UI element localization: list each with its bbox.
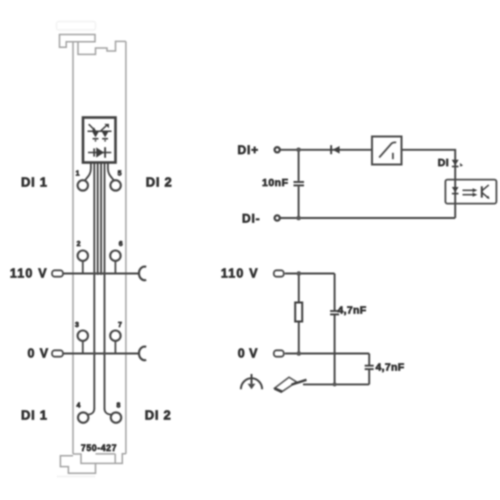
- svg-text:4,7nF: 4,7nF: [376, 362, 405, 374]
- svg-text:8: 8: [117, 403, 121, 410]
- svg-text:110 V: 110 V: [10, 267, 48, 281]
- svg-text:DI 1: DI 1: [21, 408, 48, 423]
- svg-text:DI 2: DI 2: [146, 175, 173, 190]
- svg-text:3: 3: [75, 322, 79, 329]
- svg-text:4,7nF: 4,7nF: [338, 305, 367, 317]
- svg-text:DI: DI: [438, 157, 449, 169]
- svg-text:10nF: 10nF: [262, 177, 289, 189]
- svg-text:0 V: 0 V: [238, 347, 258, 361]
- svg-text:750-427: 750-427: [81, 443, 117, 453]
- svg-text:DI 1: DI 1: [21, 175, 48, 190]
- svg-text:6: 6: [119, 241, 123, 248]
- svg-text:0 V: 0 V: [28, 347, 49, 361]
- svg-text:7: 7: [118, 322, 122, 329]
- svg-text:2: 2: [77, 241, 81, 248]
- svg-text:5: 5: [118, 170, 122, 177]
- svg-text:1: 1: [76, 170, 80, 177]
- svg-text:DI-: DI-: [242, 211, 260, 225]
- svg-text:110 V: 110 V: [221, 267, 259, 281]
- svg-text:DI 2: DI 2: [145, 408, 172, 423]
- svg-text:4: 4: [77, 403, 81, 410]
- svg-text:DI+: DI+: [238, 143, 259, 157]
